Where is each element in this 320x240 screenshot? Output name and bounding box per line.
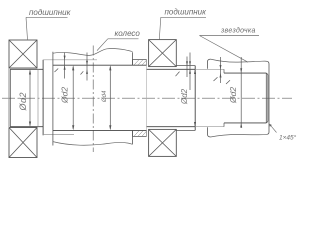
svg-text:Ød4: Ød4 [102, 90, 108, 103]
shaft end chamfer line [265, 73, 267, 123]
label звездочка underline and leader [199, 36, 259, 63]
sprocket seat top light line [195, 68, 224, 70]
dimension d2 left journal line [29, 71, 31, 126]
svg-text:звездочка: звездочка [220, 27, 256, 35]
spacer right face line [146, 60, 148, 137]
shaft end top line d1 [224, 72, 266, 74]
spacer sleeve bottom hatched [133, 130, 147, 136]
small step dimension left of wheel [64, 53, 66, 79]
chamfer leader [269, 124, 276, 133]
dimension sprocket seat arrows [240, 68, 242, 127]
wheel rim right face bottom segment [132, 130, 134, 144]
small step dimension at x87 [86, 53, 88, 81]
centerline shaft axis [2, 97, 292, 99]
small step dims sprocket left [187, 53, 190, 91]
slash tick sprocket A [214, 77, 218, 81]
dimension wheel seat arrows [72, 65, 74, 130]
grease ring top line [176, 65, 195, 67]
wheel rim bottom break line wavy [53, 142, 133, 146]
sprocket bottom break line wavy [211, 134, 268, 137]
slash tick near right bearing [176, 72, 180, 77]
svg-text:Ød2: Ød2 [228, 87, 238, 104]
svg-text:подшипник: подшипник [165, 8, 208, 17]
wheel hub top line [43, 59, 97, 61]
bearing box right bottom [149, 129, 177, 156]
wheel rim top break line wavy [53, 48, 133, 55]
spacer sleeve top hatched [133, 60, 147, 66]
bearing box left top [9, 40, 37, 68]
grease ring bottom line [176, 129, 195, 131]
right journal bottom line [147, 126, 196, 128]
label подшипник right underline and leader [159, 17, 206, 39]
label подшипник left underline and leader [26, 17, 68, 39]
svg-text:Ød2: Ød2 [180, 88, 189, 105]
sprocket rim left face top [208, 59, 211, 69]
wheel seat bottom line [53, 129, 147, 131]
step at x224 [223, 69, 225, 126]
sprocket rim left face bottom [208, 127, 211, 137]
bearing box left bottom [9, 128, 37, 158]
bearing box right top [149, 40, 177, 67]
dimension d2 left journal arrows [29, 69, 31, 126]
dimension right journal arrows on hub face [194, 69, 196, 126]
wheel hub bottom line [43, 134, 74, 136]
small step dimension slash tick A [55, 69, 59, 73]
small step dimension slash tick B [81, 71, 84, 74]
sprocket right face [267, 61, 269, 134]
shaft end face [266, 73, 268, 123]
slash tick sprocket B [226, 80, 230, 84]
wheel seat top line [53, 64, 147, 66]
dimension sprocket seat line [240, 57, 242, 128]
sprocket hub left face [194, 66, 196, 131]
svg-text:подшипник: подшипник [29, 8, 72, 17]
small step dim sprocket seat [220, 57, 222, 83]
dimension wheel hub line [109, 67, 111, 130]
wheel rim right face top segment [132, 52, 134, 65]
svg-text:Ød2: Ød2 [18, 92, 28, 112]
wheel vertical centerline [92, 46, 94, 153]
bearing housing edge line left [8, 68, 10, 128]
dimension wheel hub arrows [109, 65, 111, 130]
shaft end bottom line d1 [224, 122, 266, 124]
dimension wheel seat line [72, 67, 74, 130]
label колесо underline and leader [97, 39, 139, 51]
right journal top line [147, 68, 196, 70]
shoulder step line left journal [37, 69, 39, 126]
svg-text:Ød2: Ød2 [60, 87, 70, 104]
svg-text:колесо: колесо [115, 29, 141, 38]
sprocket seat bottom light line [195, 126, 224, 128]
svg-text:1×45°: 1×45° [279, 134, 297, 142]
wheel hub left face [42, 60, 44, 136]
sprocket top break line wavy [211, 59, 268, 62]
shaft left journal outline [10, 69, 43, 126]
wheel rim left face [52, 52, 54, 146]
